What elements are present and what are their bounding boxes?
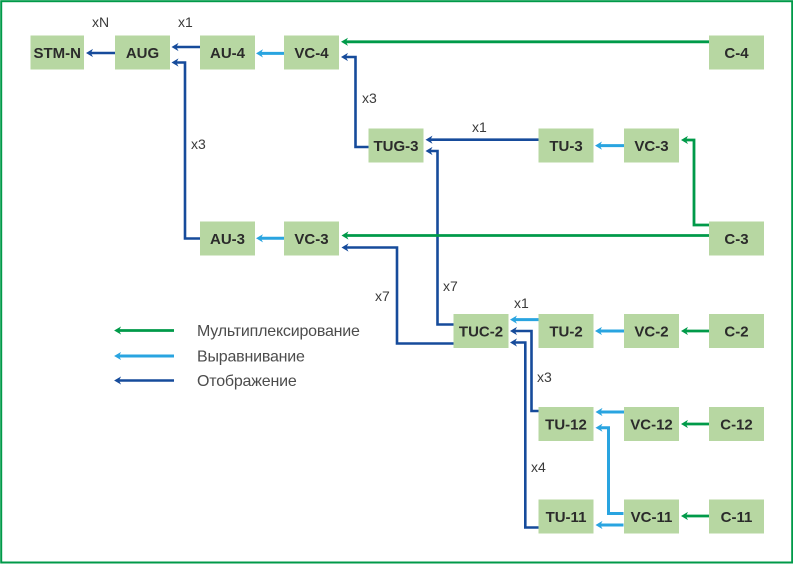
box VC-12 [624, 407, 679, 441]
box AU-4 [200, 36, 255, 70]
wire VC-2 to TU-2 light blue arrow [600, 330, 624, 333]
wire C-3 to VC-3 lower green arrow [346, 234, 709, 237]
svg-text:x1: x1 [178, 14, 193, 30]
svg-text:VC-12: VC-12 [630, 417, 673, 434]
legend arrow alignment light blue [119, 355, 174, 358]
svg-text:VC-3: VC-3 [634, 138, 668, 155]
wire VC-11 to TU-11 light blue arrow [600, 524, 623, 527]
svg-text:x1: x1 [514, 295, 529, 311]
wire TUC-2 to VC-3 lower dark blue elbow [346, 248, 453, 344]
svg-text:Отображение: Отображение [197, 373, 297, 390]
legend arrow multiplexing green [119, 329, 174, 332]
svg-text:x3: x3 [191, 136, 206, 152]
box AU-3 [200, 222, 255, 256]
svg-text:TU-12: TU-12 [545, 417, 587, 434]
svg-text:x1: x1 [472, 119, 487, 135]
svg-text:AU-3: AU-3 [210, 231, 245, 248]
svg-text:C-11: C-11 [721, 509, 753, 526]
wire TU-2 to TUC-2 light blue arrow [515, 318, 539, 321]
svg-text:STM-N: STM-N [33, 45, 81, 62]
box VC-3 lower [284, 222, 339, 256]
svg-text:VC-11: VC-11 [631, 509, 673, 526]
svg-text:C-4: C-4 [724, 45, 749, 62]
wire TUC-2 to TUG-3 dark blue elbow [430, 151, 453, 325]
wire AUG to STM-N dark blue arrow [91, 52, 115, 55]
svg-text:C-12: C-12 [720, 417, 753, 434]
wire C-4 to VC-4 green arrow [346, 40, 709, 43]
wire C-11 to VC-11 green arrow [686, 515, 709, 518]
box C-4 [709, 36, 764, 70]
svg-text:x4: x4 [531, 459, 546, 475]
svg-text:TU-3: TU-3 [549, 138, 582, 155]
svg-text:C-2: C-2 [724, 324, 748, 341]
wire TU-12 to TUC-2 dark blue elbow [515, 331, 539, 411]
wire TU-11 to TUC-2 dark blue elbow [515, 343, 539, 528]
wire VC-4 to AU-4 light blue arrow [261, 52, 284, 55]
box TUC-2 [454, 314, 509, 348]
box C-3 [709, 222, 764, 256]
wire VC-3 lower to AU-3 light blue arrow [261, 237, 284, 240]
legend arrow mapping dark blue [119, 379, 174, 382]
svg-text:x3: x3 [537, 369, 552, 385]
box VC-3 upper [624, 129, 679, 163]
box TU-11 [539, 500, 594, 534]
wire TUG-3 to VC-4 dark blue elbow [346, 57, 369, 147]
box AUG [115, 36, 170, 70]
wire C-3 to VC-3 upper green elbow [686, 140, 709, 225]
svg-text:TU-2: TU-2 [549, 324, 582, 341]
wire VC-3 upper to TU-3 light blue arrow [600, 144, 624, 147]
wire VC-12 to TU-12 light blue arrow [600, 411, 624, 414]
svg-text:x7: x7 [375, 288, 390, 304]
wire VC-11 to TU-12 light blue elbow [600, 428, 623, 514]
box TU-3 [539, 129, 594, 163]
svg-text:Мультиплексирование: Мультиплексирование [197, 323, 360, 340]
wire C-12 to VC-12 green arrow [686, 423, 709, 426]
box C-12 [709, 407, 764, 441]
box C-11 [709, 500, 764, 534]
svg-text:x7: x7 [443, 278, 458, 294]
wire AU-3 to AUG dark blue elbow [176, 63, 200, 239]
svg-text:AU-4: AU-4 [210, 45, 246, 62]
box STM-N [31, 36, 85, 70]
svg-text:Выравнивание: Выравнивание [197, 349, 305, 366]
box VC-2 [624, 314, 679, 348]
svg-text:x3: x3 [362, 90, 377, 106]
box VC-11 [624, 500, 679, 534]
svg-text:VC-4: VC-4 [294, 45, 329, 62]
svg-text:TUG-3: TUG-3 [374, 138, 419, 155]
wire C-2 to VC-2 green arrow [686, 330, 709, 333]
svg-text:C-3: C-3 [724, 231, 748, 248]
svg-text:VC-2: VC-2 [634, 324, 668, 341]
box TU-12 [539, 407, 594, 441]
box C-2 [709, 314, 764, 348]
box TUG-3 [369, 129, 424, 163]
wire AU-4 to AUG dark blue arrow [176, 46, 200, 49]
box TU-2 [539, 314, 594, 348]
box VC-4 [284, 36, 339, 70]
svg-text:xN: xN [92, 14, 109, 30]
svg-text:AUG: AUG [126, 45, 159, 62]
wire TU-3 to TUG-3 dark blue arrow [430, 138, 538, 141]
svg-text:TU-11: TU-11 [546, 509, 587, 526]
svg-text:VC-3: VC-3 [294, 231, 328, 248]
svg-text:TUC-2: TUC-2 [459, 324, 503, 341]
